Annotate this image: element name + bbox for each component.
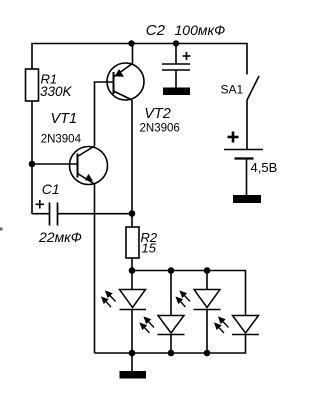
- svg-text:C1: C1: [42, 181, 60, 197]
- svg-text:SA1: SA1: [221, 82, 244, 96]
- svg-text:2N3906: 2N3906: [140, 122, 180, 134]
- svg-text:100мкФ: 100мкФ: [175, 22, 226, 38]
- svg-text:VT1: VT1: [51, 111, 78, 127]
- svg-text:2N3904: 2N3904: [41, 133, 82, 145]
- svg-text:15: 15: [142, 241, 157, 256]
- svg-text:4,5В: 4,5В: [251, 160, 278, 175]
- svg-text:VT2: VT2: [144, 106, 171, 122]
- svg-text:22мкФ: 22мкФ: [38, 229, 82, 245]
- svg-text:C2: C2: [146, 22, 166, 39]
- svg-text:330K: 330K: [40, 84, 73, 99]
